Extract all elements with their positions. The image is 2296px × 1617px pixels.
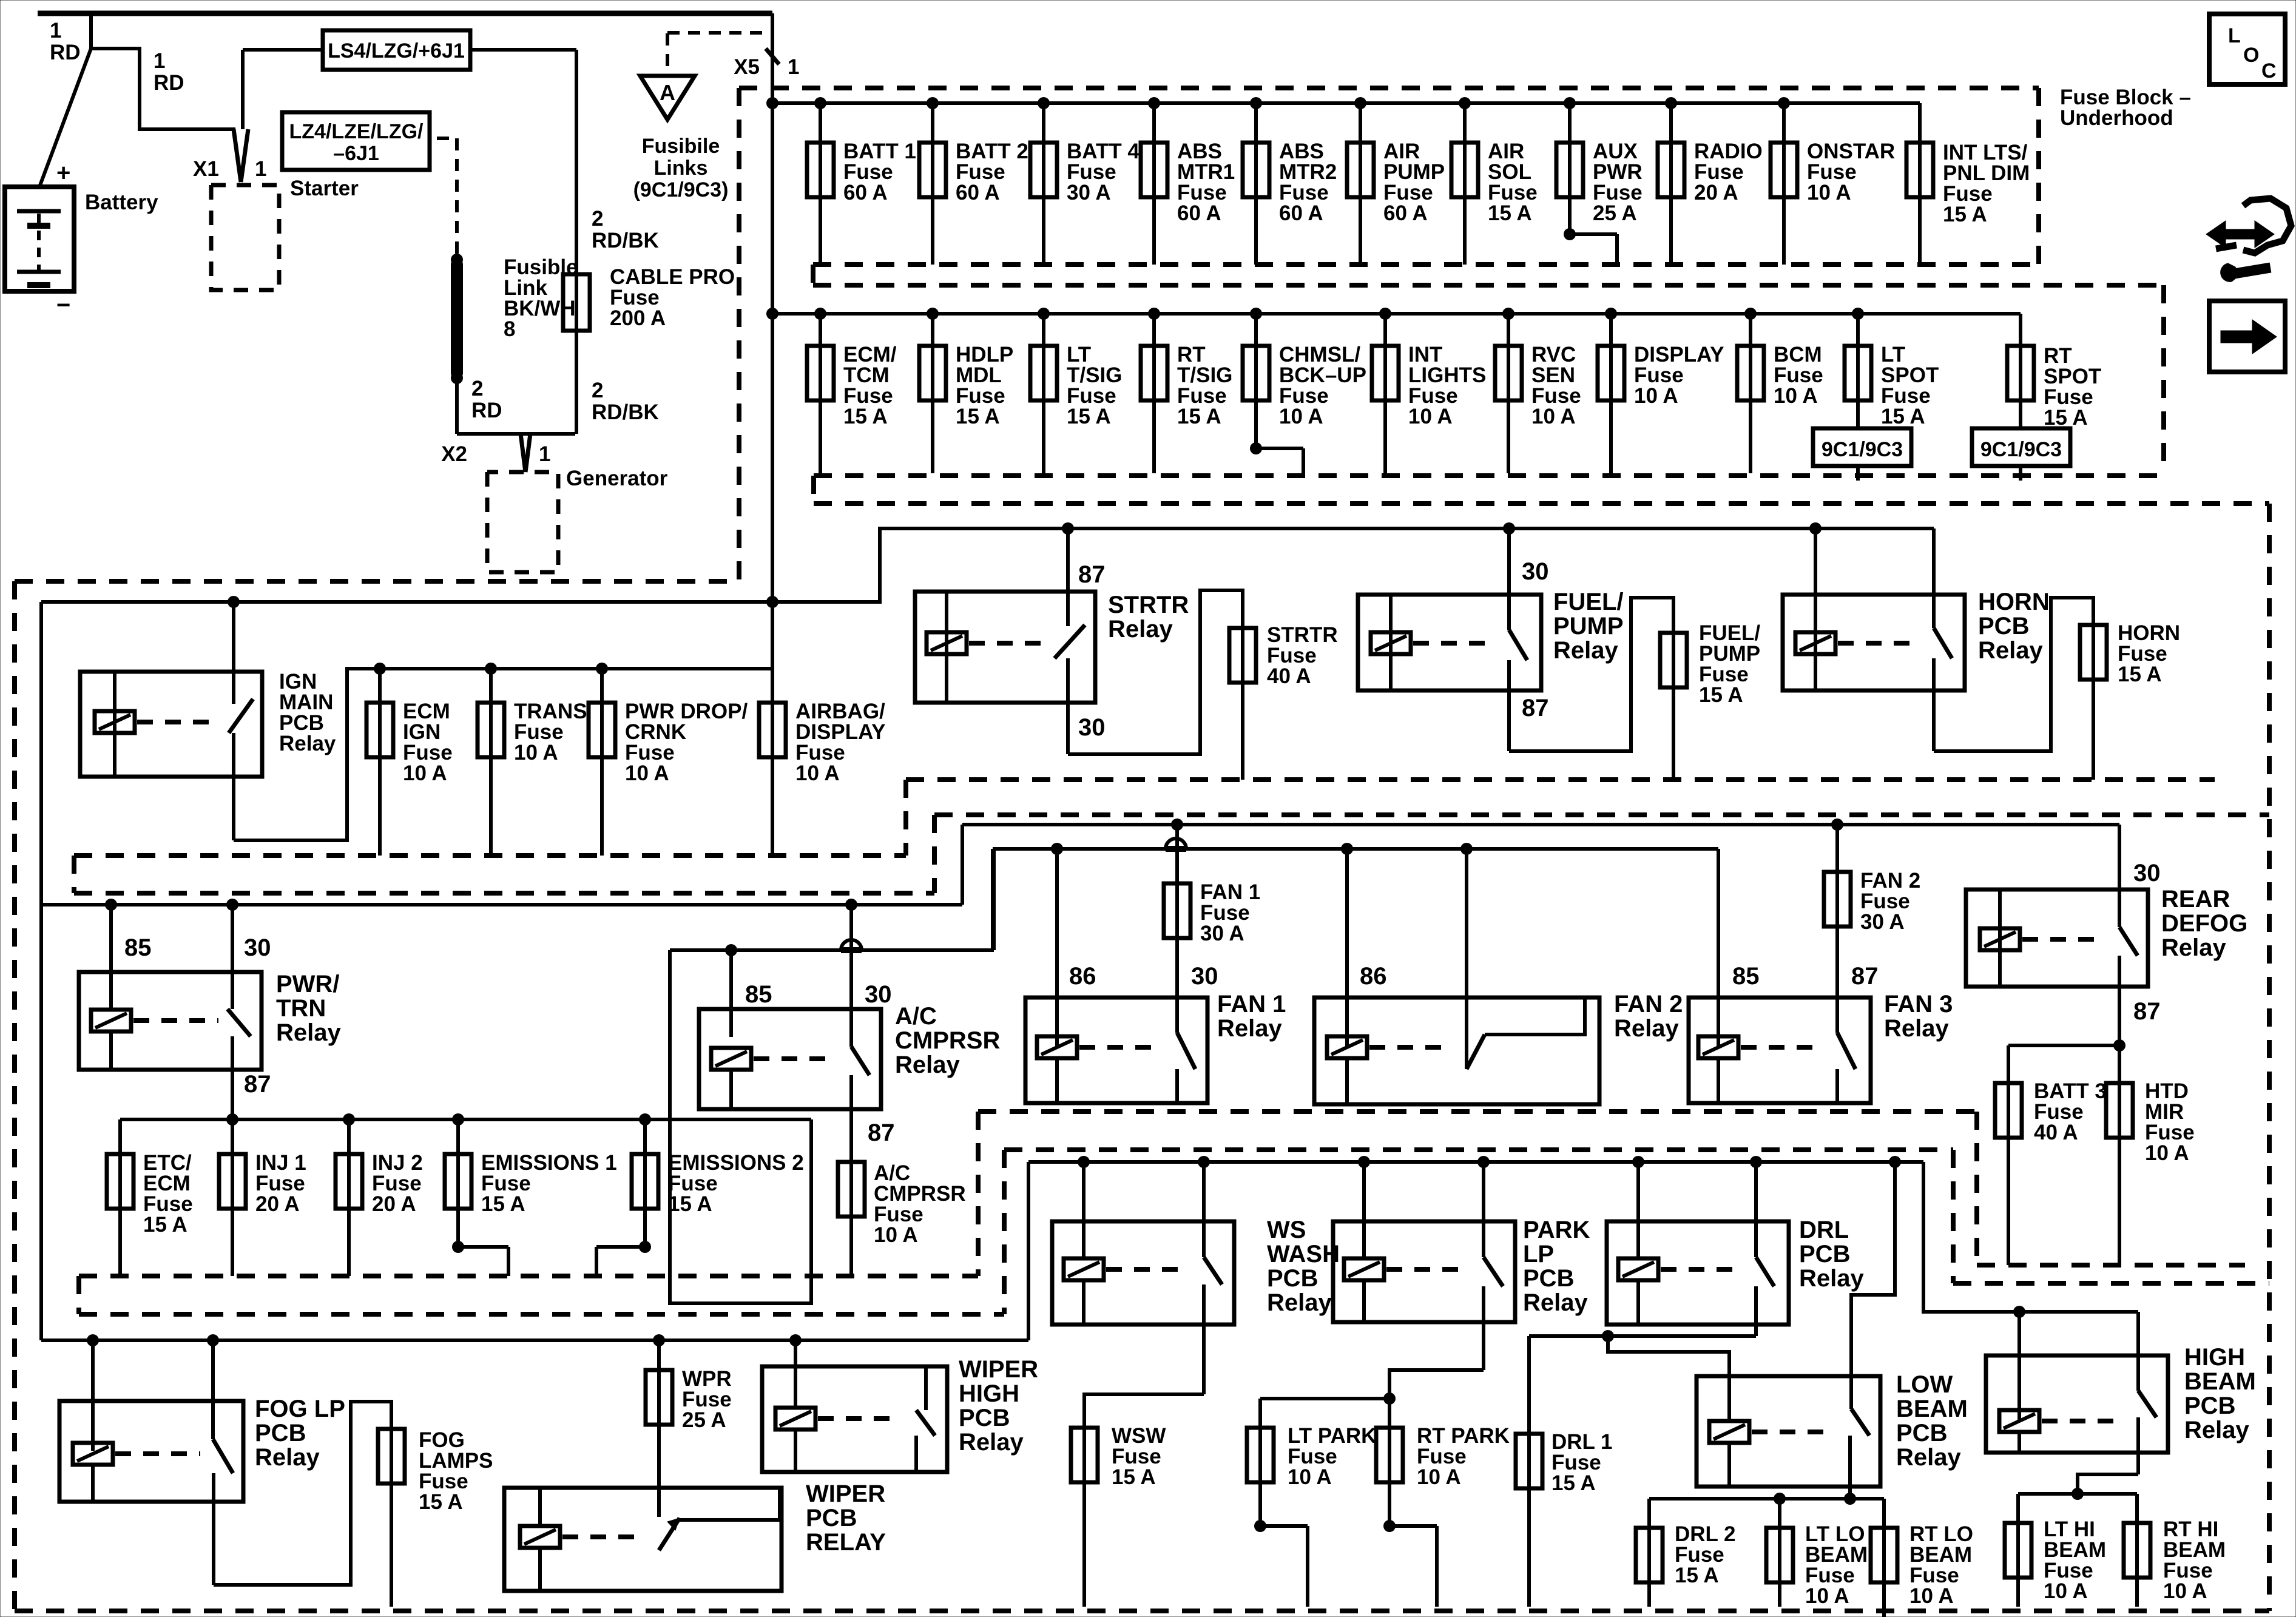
svg-text:LZ4/LZE/LZG/: LZ4/LZE/LZG/ [289,120,424,143]
svg-text:2: 2 [471,377,483,400]
svg-text:A: A [660,80,675,105]
svg-text:Relay: Relay [1884,1015,1949,1042]
svg-text:Relay: Relay [2184,1417,2249,1443]
svg-text:10 A: 10 A [1807,181,1851,204]
svg-text:Relay: Relay [255,1444,320,1471]
svg-text:15 A: 15 A [1943,203,1987,226]
svg-text:X1: X1 [193,157,219,181]
svg-text:10 A: 10 A [2163,1579,2207,1603]
svg-text:PCB: PCB [255,1420,306,1447]
svg-text:PCB: PCB [1978,613,2029,640]
svg-text:Relay: Relay [1217,1015,1282,1042]
svg-text:–6J1: –6J1 [333,142,379,165]
svg-text:Relay: Relay [1978,637,2043,664]
svg-text:40 A: 40 A [1267,664,1311,688]
svg-text:15 A: 15 A [956,405,1000,428]
svg-text:15 A: 15 A [1675,1564,1719,1587]
svg-text:RD/BK: RD/BK [592,400,659,424]
svg-text:Links: Links [654,157,708,180]
svg-text:15 A: 15 A [1881,405,1925,428]
svg-text:87: 87 [244,1071,271,1098]
svg-text:20 A: 20 A [255,1192,300,1216]
svg-text:15 A: 15 A [843,405,888,428]
svg-text:10 A: 10 A [1909,1584,1954,1608]
svg-text:30: 30 [2133,860,2161,886]
svg-text:STRTR: STRTR [1108,592,1189,618]
svg-text:FAN 2: FAN 2 [1614,991,1683,1018]
svg-text:86: 86 [1360,963,1387,990]
svg-text:85: 85 [745,981,772,1008]
svg-text:L: L [2228,24,2241,47]
svg-text:Relay: Relay [1553,637,1618,664]
svg-text:15 A: 15 A [143,1213,187,1237]
svg-text:10 A: 10 A [1634,384,1678,408]
svg-text:HIGH: HIGH [959,1380,1019,1407]
svg-text:2: 2 [592,379,603,402]
svg-text:Relay: Relay [276,1019,341,1046]
svg-text:87: 87 [1851,963,1879,990]
svg-text:20 A: 20 A [372,1192,416,1216]
svg-text:DRL: DRL [1799,1217,1849,1243]
svg-text:15 A: 15 A [668,1192,712,1216]
svg-text:60 A: 60 A [1177,201,1221,225]
svg-text:1: 1 [50,19,61,42]
svg-text:Underhood: Underhood [2060,106,2173,130]
svg-text:40 A: 40 A [2034,1121,2078,1144]
svg-text:PWR/: PWR/ [276,971,339,998]
svg-text:30 A: 30 A [1200,922,1244,945]
svg-text:1: 1 [788,55,799,79]
svg-text:25 A: 25 A [1593,201,1637,225]
svg-text:60 A: 60 A [956,181,1000,204]
svg-text:Starter: Starter [290,177,359,200]
svg-text:PCB: PCB [1523,1265,1574,1292]
svg-text:10 A: 10 A [1531,405,1576,428]
svg-text:86: 86 [1069,963,1096,990]
svg-text:WASH: WASH [1267,1241,1340,1268]
svg-text:BEAM: BEAM [1896,1396,1968,1422]
svg-text:WS: WS [1267,1217,1306,1243]
svg-text:10 A: 10 A [403,761,447,785]
svg-text:Relay: Relay [1799,1265,1864,1292]
svg-text:RELAY: RELAY [806,1529,886,1556]
svg-text:10 A: 10 A [1774,384,1818,408]
svg-text:LS4/LZG/+6J1: LS4/LZG/+6J1 [328,39,465,62]
svg-text:30: 30 [1191,963,1218,990]
svg-text:10 A: 10 A [1408,405,1453,428]
svg-text:Fusibile: Fusibile [642,135,720,158]
svg-text:10 A: 10 A [1279,405,1323,428]
svg-text:RD: RD [154,71,184,95]
svg-text:10 A: 10 A [1805,1584,1849,1608]
svg-text:10 A: 10 A [1417,1465,1461,1489]
svg-text:30: 30 [244,934,271,961]
svg-text:87: 87 [868,1119,895,1146]
svg-text:15 A: 15 A [1067,405,1111,428]
svg-text:1: 1 [154,49,165,73]
svg-text:REAR: REAR [2161,886,2230,913]
svg-text:30 A: 30 A [1860,910,1905,934]
svg-text:Relay: Relay [1108,616,1173,643]
svg-text:Relay: Relay [1896,1444,1961,1471]
svg-text:1: 1 [539,442,550,466]
svg-text:87: 87 [1078,561,1106,588]
svg-text:25 A: 25 A [682,1408,726,1432]
svg-text:30: 30 [865,981,892,1008]
svg-text:RD: RD [50,41,81,64]
svg-text:Relay: Relay [895,1052,960,1078]
svg-text:60 A: 60 A [1279,201,1323,225]
svg-text:8: 8 [504,317,515,341]
svg-text:87: 87 [1522,695,1549,721]
svg-text:15 A: 15 A [1488,201,1532,225]
svg-text:PCB: PCB [959,1405,1010,1431]
svg-text:85: 85 [1732,963,1760,990]
svg-text:HORN: HORN [1978,589,2050,615]
svg-text:15 A: 15 A [1177,405,1221,428]
svg-text:+: + [56,160,70,186]
svg-text:TRN: TRN [276,995,326,1022]
svg-text:LP: LP [1523,1241,1554,1268]
svg-text:15 A: 15 A [1551,1471,1596,1495]
svg-text:DEFOG: DEFOG [2161,910,2247,937]
svg-text:A/C: A/C [895,1003,937,1030]
svg-text:HIGH: HIGH [2184,1344,2245,1371]
svg-text:−: − [56,292,70,319]
svg-text:PCB: PCB [2184,1393,2235,1419]
svg-text:FOG LP: FOG LP [255,1396,345,1422]
svg-text:C: C [2261,59,2277,83]
svg-text:FAN 1: FAN 1 [1217,991,1286,1018]
svg-text:10 A: 10 A [2044,1579,2088,1603]
svg-text:15 A: 15 A [1112,1465,1156,1489]
svg-text:10 A: 10 A [2145,1141,2189,1165]
svg-text:Generator: Generator [566,467,668,490]
svg-text:CMPRSR: CMPRSR [895,1027,1000,1054]
svg-text:Relay: Relay [279,732,336,755]
svg-text:20 A: 20 A [1694,181,1738,204]
svg-text:PARK: PARK [1523,1217,1590,1243]
svg-text:10 A: 10 A [1288,1465,1332,1489]
svg-text:2: 2 [592,207,603,231]
svg-text:Relay: Relay [2161,934,2226,961]
svg-text:60 A: 60 A [1383,201,1428,225]
svg-text:15 A: 15 A [2118,663,2162,686]
svg-text:(9C1/9C3): (9C1/9C3) [633,178,729,201]
svg-text:WIPER: WIPER [959,1356,1038,1383]
svg-text:PCB: PCB [1896,1420,1947,1447]
svg-text:RD/BK: RD/BK [592,229,659,252]
svg-text:85: 85 [124,934,152,961]
svg-text:30: 30 [1078,714,1106,741]
svg-text:RD: RD [471,399,502,422]
svg-text:X2: X2 [441,442,467,466]
svg-text:WIPER: WIPER [806,1480,885,1507]
svg-text:X5: X5 [734,55,760,79]
svg-text:15 A: 15 A [2044,406,2088,430]
svg-text:PUMP: PUMP [1553,613,1624,640]
svg-text:PCB: PCB [806,1505,857,1531]
svg-text:200 A: 200 A [610,306,666,330]
svg-text:9C1/9C3: 9C1/9C3 [1822,438,1903,461]
svg-text:PCB: PCB [1267,1265,1318,1292]
svg-text:Relay: Relay [959,1429,1024,1456]
svg-text:Relay: Relay [1267,1289,1332,1316]
svg-text:LOW: LOW [1896,1371,1953,1398]
svg-text:Relay: Relay [1523,1289,1588,1316]
svg-text:Battery: Battery [85,191,158,214]
svg-text:10 A: 10 A [514,741,558,765]
svg-text:9C1/9C3: 9C1/9C3 [1980,438,2062,461]
svg-text:Relay: Relay [1614,1015,1679,1042]
svg-text:30 A: 30 A [1067,181,1111,204]
svg-text:15 A: 15 A [419,1490,463,1514]
svg-text:30: 30 [1522,558,1549,585]
svg-text:10 A: 10 A [625,761,669,785]
svg-text:10 A: 10 A [874,1223,918,1247]
svg-text:15 A: 15 A [481,1192,525,1216]
svg-text:60 A: 60 A [843,181,888,204]
svg-text:FUEL/: FUEL/ [1553,589,1624,615]
svg-text:87: 87 [2133,998,2161,1025]
svg-text:BEAM: BEAM [2184,1368,2256,1395]
svg-text:PCB: PCB [1799,1241,1850,1268]
svg-text:O: O [2243,44,2259,67]
svg-text:1: 1 [255,157,266,181]
svg-text:FAN 3: FAN 3 [1884,991,1953,1018]
svg-text:10 A: 10 A [795,761,840,785]
svg-text:15 A: 15 A [1699,683,1743,707]
